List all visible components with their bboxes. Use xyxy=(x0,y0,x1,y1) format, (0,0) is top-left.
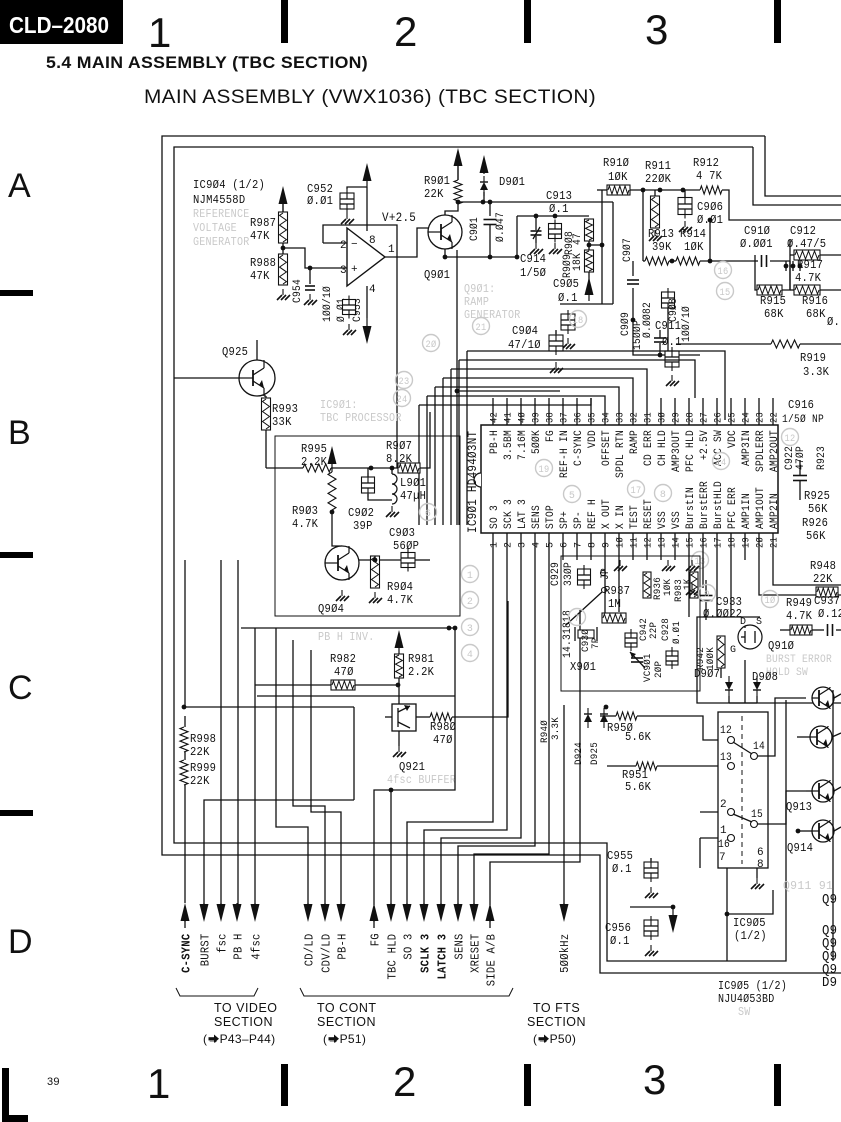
svg-text:C91Ø: C91Ø xyxy=(744,224,770,238)
svg-text:11: 11 xyxy=(630,537,641,548)
switch lever xyxy=(733,742,752,754)
svg-text:Ø.1: Ø.1 xyxy=(662,335,682,349)
svg-text:(1/2): (1/2) xyxy=(734,929,767,943)
svg-text:D9Ø7: D9Ø7 xyxy=(694,667,720,681)
svg-text:LATCH 3: LATCH 3 xyxy=(436,934,450,980)
circled number 4 xyxy=(462,645,479,662)
svg-text:1Ø: 1Ø xyxy=(615,537,627,548)
svg-text:PB-H: PB-H xyxy=(336,933,350,959)
svg-text:LAT 3: LAT 3 xyxy=(517,499,529,529)
svg-text:FG: FG xyxy=(545,430,557,442)
svg-text:R937: R937 xyxy=(604,584,630,598)
svg-text:NJM4558D: NJM4558D xyxy=(193,193,245,207)
wire chip pin drops to oscillator block xyxy=(604,560,606,622)
svg-text:CLD–2080: CLD–2080 xyxy=(9,12,109,38)
svg-text:2ØP: 2ØP xyxy=(653,661,665,678)
svg-text:7.16M: 7.16M xyxy=(517,430,529,460)
svg-text:VSS: VSS xyxy=(657,511,669,529)
wire horizontal xyxy=(184,706,354,708)
svg-text:1ØØ/1Ø: 1ØØ/1Ø xyxy=(322,286,334,322)
svg-text:R9Ø3: R9Ø3 xyxy=(292,504,318,518)
wire SO3 drop xyxy=(407,560,493,909)
resistor R998 xyxy=(180,727,188,752)
svg-text:9: 9 xyxy=(704,590,710,601)
wire main ramp rail xyxy=(445,249,517,257)
svg-text:2: 2 xyxy=(504,542,515,548)
svg-text:R981: R981 xyxy=(408,652,434,666)
svg-text:R923: R923 xyxy=(816,446,828,470)
svg-text:16: 16 xyxy=(718,267,729,278)
svg-text:23: 23 xyxy=(756,412,767,423)
IC901 pin 5 STOP xyxy=(548,533,550,560)
bold arrow glyphs for section pointers xyxy=(209,1037,215,1040)
sub-block enclosure box xyxy=(275,436,460,616)
IC901 pin 11 TEST xyxy=(632,533,634,560)
wire node junction xyxy=(308,266,313,271)
svg-text:STOP: STOP xyxy=(545,505,557,529)
wire xyxy=(812,629,824,631)
svg-text:47ØP: 47ØP xyxy=(795,446,807,470)
circled number 9 xyxy=(699,585,716,602)
svg-text:R91Ø: R91Ø xyxy=(603,156,629,170)
svg-text:47µH: 47µH xyxy=(400,489,426,503)
svg-text:SENS: SENS xyxy=(453,933,467,959)
svg-text:4fsc: 4fsc xyxy=(250,933,264,959)
svg-text:Q91Ø: Q91Ø xyxy=(768,639,794,653)
transistor Q912 xyxy=(810,726,832,748)
signal arrow SCLK 3 xyxy=(420,904,429,922)
circled number 16 xyxy=(715,262,732,279)
top tick mark xyxy=(524,0,531,43)
svg-text:12: 12 xyxy=(785,434,796,445)
ground xyxy=(756,878,758,884)
svg-text:14: 14 xyxy=(672,537,683,548)
wire xyxy=(347,187,367,189)
svg-text:C916: C916 xyxy=(788,398,814,412)
svg-text:3.3K: 3.3K xyxy=(550,717,562,740)
svg-text:Ø.1: Ø.1 xyxy=(558,291,578,305)
svg-text:33: 33 xyxy=(616,412,627,423)
ground xyxy=(691,560,693,566)
svg-text:2: 2 xyxy=(393,1058,417,1105)
svg-text:16: 16 xyxy=(700,537,711,548)
svg-text:68K: 68K xyxy=(764,307,784,321)
svg-text:PFC HLD: PFC HLD xyxy=(685,430,697,472)
svg-text:VDC: VDC xyxy=(727,430,739,448)
svg-text:9: 9 xyxy=(602,542,613,548)
svg-text:+: + xyxy=(351,264,358,276)
svg-text:33K: 33K xyxy=(272,415,292,429)
IC901 pin 40 7.16M xyxy=(520,398,522,425)
svg-text:47K: 47K xyxy=(250,269,270,283)
svg-text:15: 15 xyxy=(686,537,697,548)
IC901 pin 13 VSS xyxy=(660,533,662,560)
left tick mark xyxy=(0,290,33,296)
svg-text:5.6K: 5.6K xyxy=(625,780,652,794)
wire xyxy=(790,254,794,256)
wire xyxy=(420,412,430,468)
signal arrow fsc xyxy=(217,904,226,922)
svg-text:VOLTAGE: VOLTAGE xyxy=(193,222,237,235)
svg-text:VDD: VDD xyxy=(587,430,599,448)
IC901 pin 10 X IN xyxy=(618,533,620,560)
svg-text:8: 8 xyxy=(757,859,764,871)
svg-text:SCLK 3: SCLK 3 xyxy=(419,934,433,973)
svg-text:AMP3IN: AMP3IN xyxy=(741,430,753,466)
svg-text:RAMP: RAMP xyxy=(464,296,489,309)
svg-text:TEST: TEST xyxy=(629,505,641,529)
svg-text:36: 36 xyxy=(574,412,585,423)
svg-text:1: 1 xyxy=(467,571,473,582)
IC901 pin 37 REF-H IN xyxy=(562,398,564,425)
svg-text:41: 41 xyxy=(504,412,515,423)
svg-text:C937: C937 xyxy=(814,594,840,608)
svg-text:56K: 56K xyxy=(808,502,828,516)
circled number 7 xyxy=(569,609,586,626)
svg-text:27: 27 xyxy=(700,412,711,423)
wire FG drop xyxy=(374,628,455,905)
svg-text:C912: C912 xyxy=(790,224,816,238)
signal arrow PB-H xyxy=(337,904,346,922)
svg-text:R911: R911 xyxy=(645,159,671,173)
ground xyxy=(282,289,284,295)
svg-text:2: 2 xyxy=(394,8,418,55)
svg-text:PB H: PB H xyxy=(232,933,246,959)
svg-text:4: 4 xyxy=(467,650,473,661)
wire xyxy=(756,868,758,878)
svg-text:AMP3OUT: AMP3OUT xyxy=(671,430,683,472)
svg-text:OFFSET: OFFSET xyxy=(601,430,613,466)
power arrow xyxy=(454,148,463,166)
svg-text:TBC PROCESSOR: TBC PROCESSOR xyxy=(320,412,402,425)
svg-text:47/1Ø: 47/1Ø xyxy=(508,338,541,352)
svg-text:14: 14 xyxy=(716,458,727,469)
svg-text:SO 3: SO 3 xyxy=(402,933,416,959)
wire xyxy=(720,668,722,678)
svg-text:SW: SW xyxy=(738,1006,751,1019)
IC901 pin 16 BurstERR xyxy=(702,533,704,560)
circled number 15 xyxy=(717,283,734,300)
svg-text:VSS: VSS xyxy=(671,511,683,529)
wire node junction xyxy=(281,246,286,251)
svg-text:SCK 3: SCK 3 xyxy=(503,499,515,529)
wire fsc drop xyxy=(220,560,222,909)
IC901 pin 28 PFC HLD xyxy=(688,398,690,425)
svg-text:C-SYNC: C-SYNC xyxy=(573,430,585,466)
IC901 pin 32 RAMP xyxy=(632,398,634,425)
svg-text:Ø.Ø1: Ø.Ø1 xyxy=(307,194,333,208)
svg-text:D925: D925 xyxy=(589,742,601,765)
svg-text:8: 8 xyxy=(369,235,376,247)
svg-text:IC9Ø1 HD494Ø3NT: IC9Ø1 HD494Ø3NT xyxy=(466,430,480,533)
transistor Q904 xyxy=(325,546,359,580)
wire xyxy=(374,556,376,560)
svg-text:D9Ø1: D9Ø1 xyxy=(499,175,525,189)
svg-text:BurstIN: BurstIN xyxy=(685,487,697,529)
circled number 12 xyxy=(782,429,799,446)
wire bus horizontal xyxy=(257,695,455,697)
svg-text:5.4 MAIN ASSEMBLY (TBC SEC: 5.4 MAIN ASSEMBLY (TBC SECTION) xyxy=(46,53,368,72)
wire xyxy=(601,189,603,191)
wire vertical pair right xyxy=(612,202,614,304)
svg-text:14: 14 xyxy=(753,741,765,753)
circled number 21 xyxy=(473,318,490,335)
wire C-SYNC drop xyxy=(184,560,186,707)
IC901 pin 15 BurstIN xyxy=(688,533,690,560)
svg-text:28: 28 xyxy=(686,412,697,423)
arrow down xyxy=(363,326,372,344)
svg-text:1: 1 xyxy=(720,825,727,837)
svg-text:−: − xyxy=(351,239,358,251)
ground xyxy=(684,221,686,227)
svg-text:15: 15 xyxy=(751,809,763,821)
transistor Q914 xyxy=(812,820,834,842)
svg-text:42: 42 xyxy=(490,412,501,423)
svg-text:1/5Ø: 1/5Ø xyxy=(520,266,546,280)
wire PB H drop xyxy=(237,560,239,909)
svg-text:19: 19 xyxy=(539,465,550,476)
svg-text:C9Ø7: C9Ø7 xyxy=(622,238,634,262)
wire xyxy=(282,243,284,254)
wire BURST drop xyxy=(204,800,354,909)
ground xyxy=(650,887,652,893)
IC901 pin 7 SP- xyxy=(576,533,578,560)
svg-text:IC9Ø1:: IC9Ø1: xyxy=(320,399,358,412)
svg-text:TO FTS: TO FTS xyxy=(533,1001,580,1015)
wire xyxy=(265,430,267,468)
svg-text:SIDE A/B: SIDE A/B xyxy=(485,934,499,986)
svg-text:X IN: X IN xyxy=(615,505,627,529)
wire chip pin drops right xyxy=(759,560,841,595)
IC901 pin 29 AMP3OUT xyxy=(674,398,676,425)
svg-text:G: G xyxy=(730,645,736,656)
IC901 pin 20 AMP1OUT xyxy=(758,533,760,560)
svg-text:R949: R949 xyxy=(786,596,812,610)
svg-text:R948: R948 xyxy=(810,559,836,573)
power arrow xyxy=(363,163,372,181)
wire xyxy=(758,698,806,756)
svg-text:5: 5 xyxy=(569,491,575,502)
transistor Q911 xyxy=(812,687,834,709)
wire CDV/LD drop xyxy=(293,640,325,909)
wire feedback loop xyxy=(323,225,397,257)
ground xyxy=(691,584,693,590)
circled number 23 xyxy=(396,372,413,389)
svg-text:C: C xyxy=(8,669,33,707)
svg-text:2: 2 xyxy=(467,597,473,608)
circled number 14 xyxy=(713,453,730,470)
svg-text:1: 1 xyxy=(148,9,172,56)
svg-text:PFC ERR: PFC ERR xyxy=(727,487,739,529)
svg-text:6: 6 xyxy=(560,542,571,548)
svg-text:REF H: REF H xyxy=(587,499,599,529)
circled number 3 xyxy=(462,619,479,636)
svg-text:C956: C956 xyxy=(605,921,631,935)
svg-text:4: 4 xyxy=(369,284,376,296)
wire xyxy=(396,257,398,468)
wire CD/LD drop xyxy=(276,628,308,909)
svg-text:GENERATOR: GENERATOR xyxy=(464,309,520,322)
wire xyxy=(642,190,644,261)
burst block enclosure wires xyxy=(697,617,841,703)
signal arrow XRESET xyxy=(470,904,479,922)
svg-text:AMP1IN: AMP1IN xyxy=(741,493,753,529)
svg-text:TO VIDEO: TO VIDEO xyxy=(214,1001,278,1015)
signal arrow PB H xyxy=(233,904,242,922)
wire xyxy=(255,684,331,686)
signal arrow TBC HLD xyxy=(387,904,396,922)
svg-text:26: 26 xyxy=(714,412,725,423)
page header black model box xyxy=(0,0,123,44)
wire xyxy=(754,255,756,261)
svg-text:Q9Ø1: Q9Ø1 xyxy=(424,268,450,282)
svg-text:REFERENCE: REFERENCE xyxy=(193,208,249,221)
svg-text:56K: 56K xyxy=(806,529,826,543)
wire 4fsc drop xyxy=(254,628,256,909)
IC901 pin 17 BurstHLD xyxy=(716,533,718,560)
signal arrow CDV/LD xyxy=(321,904,330,922)
svg-text:C911: C911 xyxy=(655,319,681,333)
ground xyxy=(341,590,343,596)
svg-text:3: 3 xyxy=(340,265,347,277)
svg-text:12: 12 xyxy=(720,725,732,737)
ground xyxy=(391,506,393,512)
svg-text:47: 47 xyxy=(572,233,584,245)
IC901 pin 12 RESET xyxy=(646,533,648,560)
svg-text:Q9Ø1:: Q9Ø1: xyxy=(464,283,495,296)
svg-text:Q925: Q925 xyxy=(222,345,248,359)
wire nested routing above chip xyxy=(467,351,725,420)
power arrow xyxy=(279,186,288,204)
IC901 pin 36 C-SYNC xyxy=(576,398,578,425)
svg-text:MAIN ASSEMBLY (VWX1036) (TBC: MAIN ASSEMBLY (VWX1036) (TBC SECTION) xyxy=(144,87,596,108)
svg-text:22P: 22P xyxy=(648,622,660,639)
IC901 pin 18 PFC ERR xyxy=(730,533,732,560)
op-amp IC905 switch box xyxy=(718,712,768,868)
IC901 pin 22 AMP2OUT xyxy=(772,398,774,425)
wire SENS drop xyxy=(458,560,535,909)
svg-text:R916: R916 xyxy=(802,294,828,308)
circled number 1 xyxy=(462,566,479,583)
svg-text:XRESET: XRESET xyxy=(469,934,483,973)
ground xyxy=(554,243,556,249)
wire xyxy=(797,736,810,738)
signal arrow BURST xyxy=(200,904,209,922)
brace video group xyxy=(176,988,258,996)
svg-text:18: 18 xyxy=(728,537,739,548)
ground xyxy=(671,375,673,381)
svg-text:SECTION: SECTION xyxy=(527,1015,586,1029)
svg-text:CD/LD: CD/LD xyxy=(303,934,317,967)
power arrow xyxy=(328,446,337,464)
svg-text:GENERATOR: GENERATOR xyxy=(193,236,249,249)
wire xyxy=(650,858,652,861)
svg-text:C9Ø6: C9Ø6 xyxy=(697,200,723,214)
IC901 pin 3 LAT 3 xyxy=(520,533,522,560)
svg-text:7: 7 xyxy=(574,542,585,548)
svg-text:21: 21 xyxy=(770,537,781,548)
svg-text:5ØØkHz: 5ØØkHz xyxy=(558,934,572,973)
capacitor C902 xyxy=(362,477,375,493)
svg-text:SECTION: SECTION xyxy=(214,1015,273,1029)
circled number 17 xyxy=(628,481,645,498)
svg-text:2.2K: 2.2K xyxy=(301,455,328,469)
svg-text:17: 17 xyxy=(714,537,725,548)
svg-text:Ø.1: Ø.1 xyxy=(610,934,630,948)
signal arrow SIDE A/B xyxy=(486,903,495,921)
wire xyxy=(416,716,430,718)
wire PB-H drop xyxy=(311,650,341,909)
svg-text:4.7K: 4.7K xyxy=(795,271,822,285)
wire node junction xyxy=(604,705,609,710)
wire xyxy=(332,510,342,546)
wire xyxy=(588,241,590,250)
IC901 pin 21 AMP2IN xyxy=(772,533,774,560)
svg-text:Ø.1: Ø.1 xyxy=(612,862,632,876)
svg-text:fsc: fsc xyxy=(216,933,230,953)
svg-text:R988: R988 xyxy=(250,256,276,270)
svg-text:39: 39 xyxy=(47,1076,60,1088)
svg-text:1ØK: 1ØK xyxy=(684,240,704,254)
wire xyxy=(632,288,634,320)
wire switch pin stubs xyxy=(700,811,718,813)
bottom tick mark xyxy=(281,1064,288,1106)
svg-text:SO 3: SO 3 xyxy=(489,505,501,529)
svg-text:A: A xyxy=(8,167,31,205)
svg-text:R919: R919 xyxy=(800,351,826,365)
IC901 pin 14 VSS xyxy=(674,533,676,560)
svg-text:29: 29 xyxy=(672,412,683,423)
arrow down xyxy=(669,915,678,933)
wire xyxy=(607,765,636,767)
wire XRESET drop xyxy=(474,560,549,909)
svg-text:3.5BM: 3.5BM xyxy=(503,430,515,460)
wire xyxy=(796,830,798,832)
wire xyxy=(709,220,711,261)
svg-text:Q921: Q921 xyxy=(399,760,425,774)
transistor Q901 xyxy=(428,215,462,249)
svg-text:AMP2IN: AMP2IN xyxy=(769,493,781,529)
svg-text:R913: R913 xyxy=(648,227,674,241)
svg-text:SP+: SP+ xyxy=(559,511,571,529)
svg-text:4 7K: 4 7K xyxy=(696,169,723,183)
resistor R988 xyxy=(279,254,288,285)
svg-text:5.6K: 5.6K xyxy=(625,730,652,744)
svg-text:1ØK: 1ØK xyxy=(608,170,628,184)
svg-text:1M: 1M xyxy=(608,597,621,611)
IC901 pin 9 X OUT xyxy=(604,533,606,560)
svg-text:Ø.47/5: Ø.47/5 xyxy=(787,237,826,251)
svg-text:R982: R982 xyxy=(330,652,356,666)
svg-text:R915: R915 xyxy=(760,294,786,308)
signal arrow CD/LD xyxy=(304,904,313,922)
ground xyxy=(309,294,311,300)
wire inner boundary xyxy=(174,147,786,961)
wire xyxy=(266,467,303,469)
wire node junction xyxy=(182,705,187,710)
svg-text:22ØK: 22ØK xyxy=(645,172,672,186)
IC901 pin 19 AMP1IN xyxy=(744,533,746,560)
svg-text:2Ø: 2Ø xyxy=(755,537,767,548)
transistor Q910 mosfet xyxy=(738,625,762,649)
circled number 13 xyxy=(692,552,709,569)
ground xyxy=(650,945,652,951)
top tick mark xyxy=(281,0,288,43)
IC901 pin 1 SO 3 xyxy=(492,533,494,560)
wire xyxy=(722,190,841,220)
ground xyxy=(346,213,348,219)
svg-text:IC9Ø5: IC9Ø5 xyxy=(733,916,766,930)
